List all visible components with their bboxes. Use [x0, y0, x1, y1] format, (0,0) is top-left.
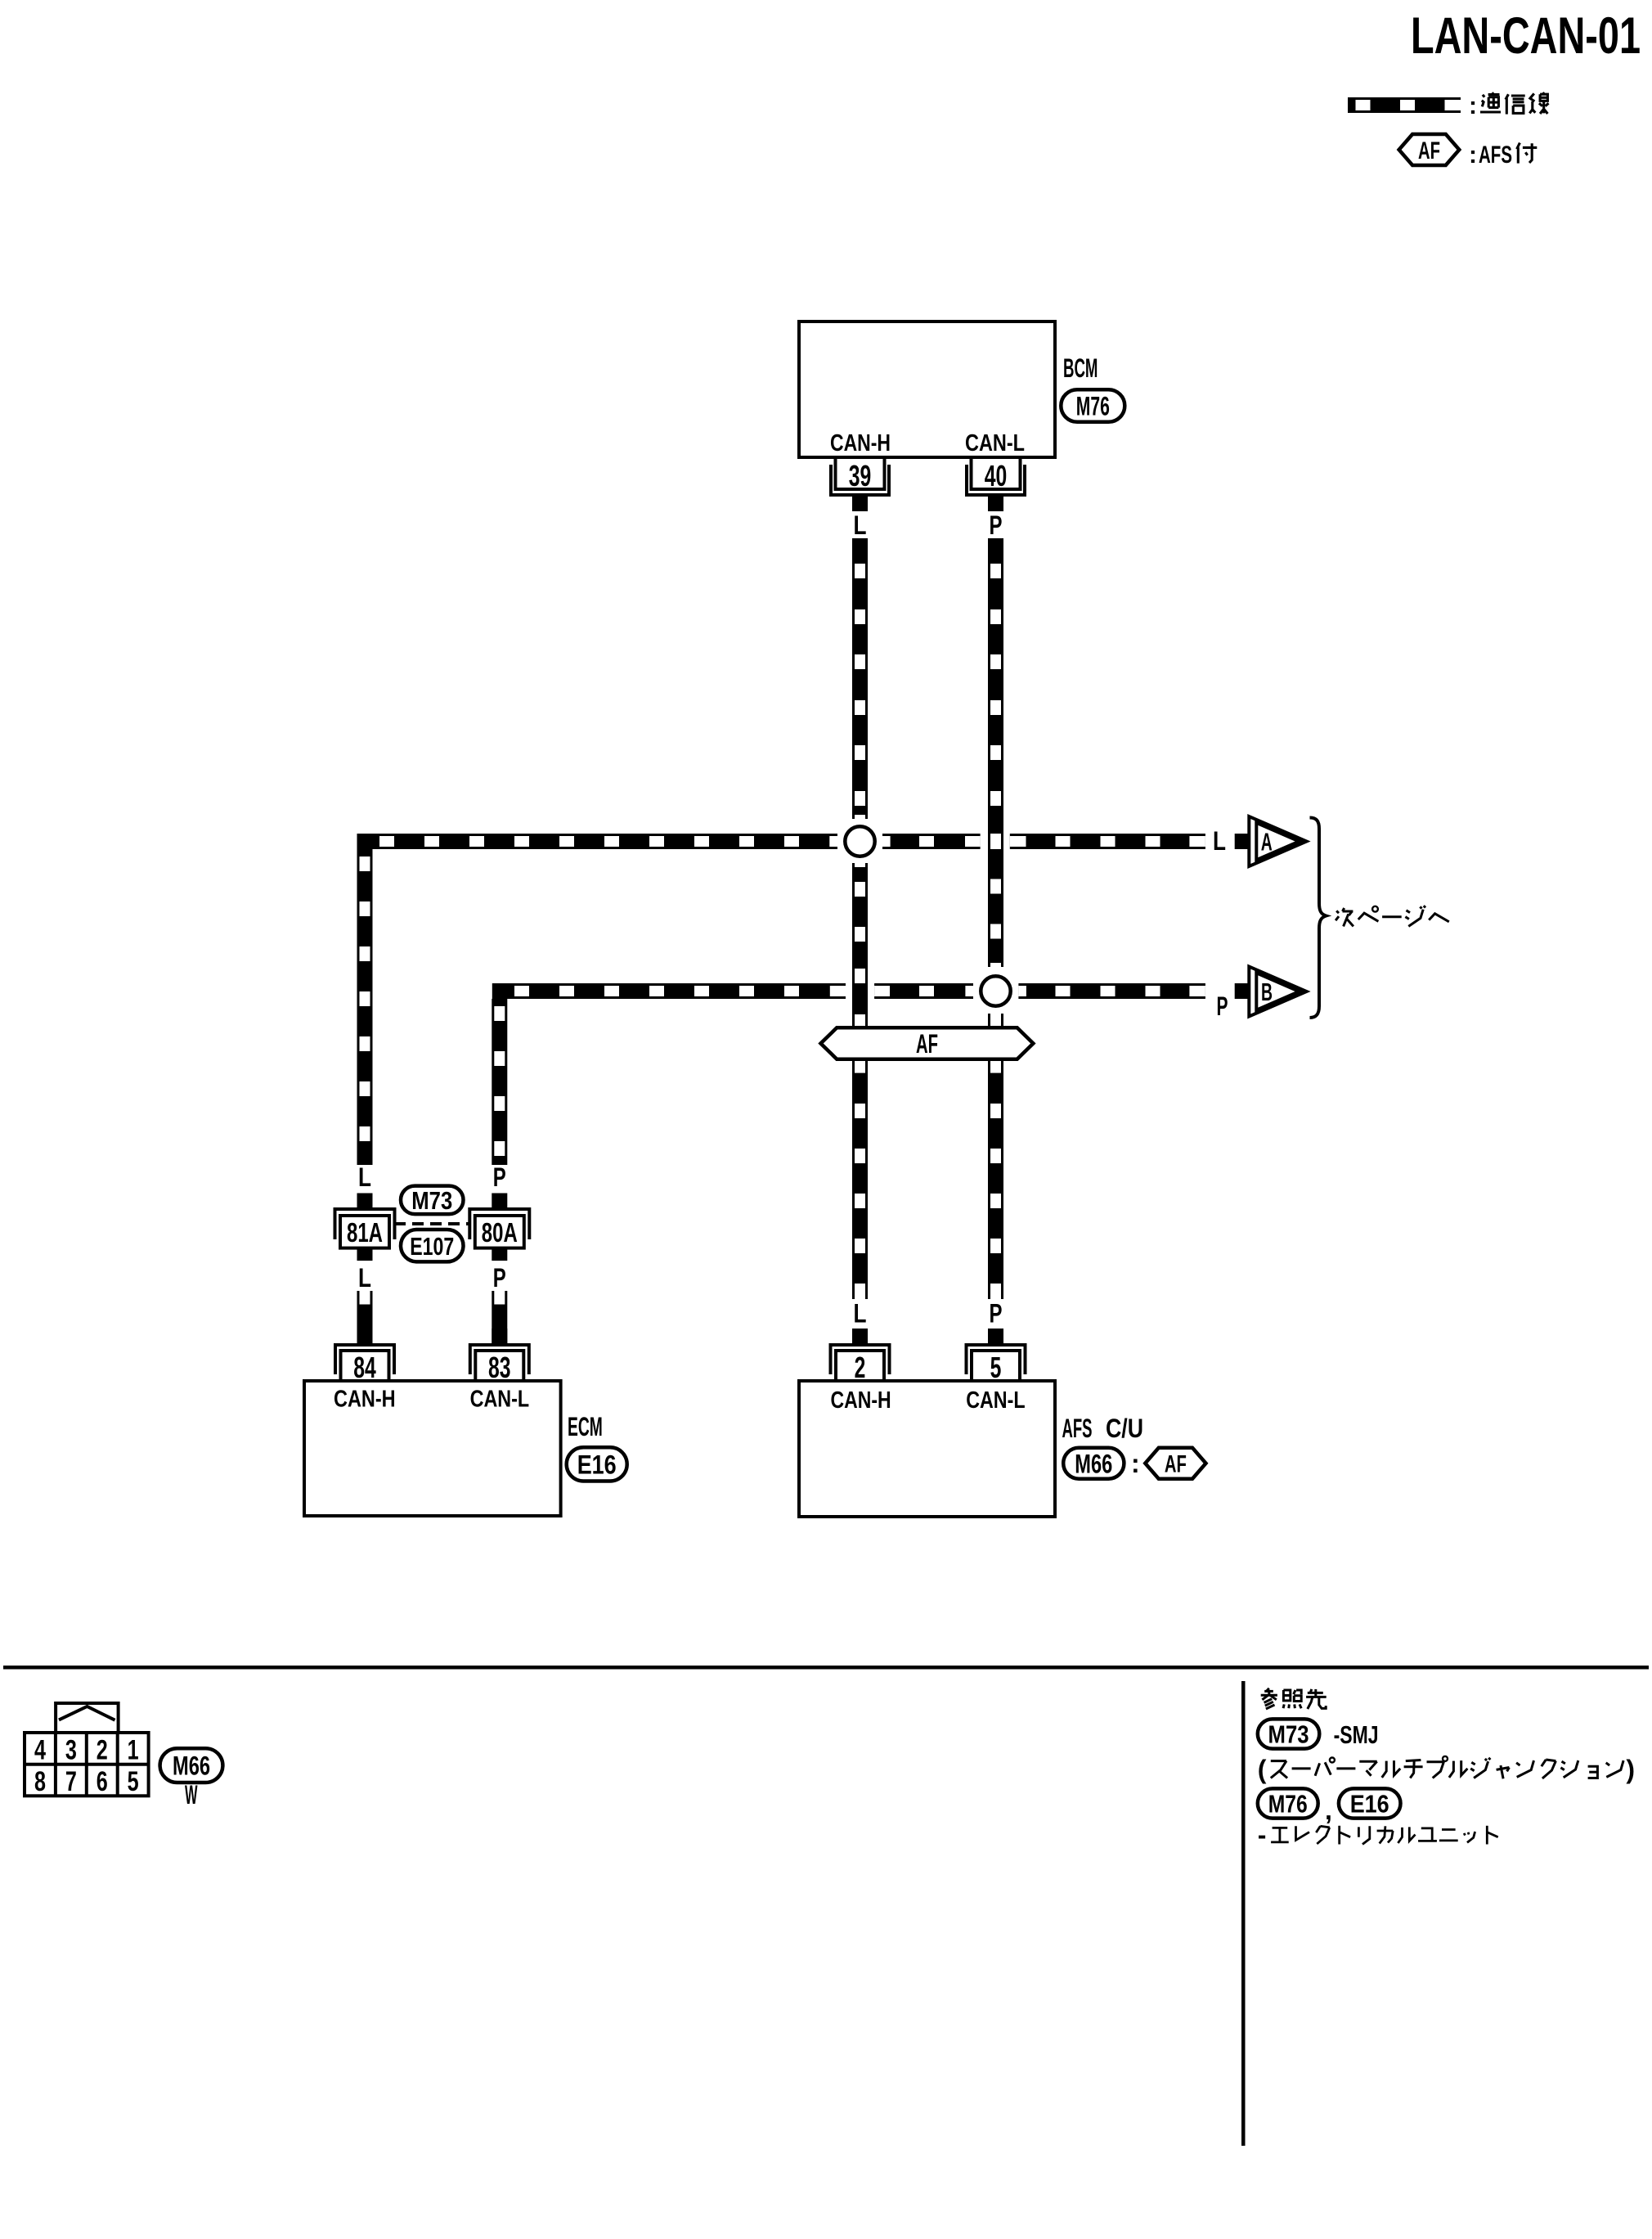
ECM box: [304, 1381, 561, 1516]
connector M66 (AFS): [1063, 1448, 1124, 1479]
svg-text:AF: AF: [916, 1029, 938, 1059]
arrow A stub: [1235, 834, 1250, 849]
wire line B (corner to crossing): [492, 983, 846, 999]
connector M73: [401, 1186, 464, 1215]
svg-text:M66: M66: [173, 1751, 210, 1781]
wire second branch (corner to 80A): [492, 999, 507, 1165]
brace next-page: [1310, 818, 1327, 1018]
M66 color W: [185, 1780, 198, 1810]
connector M76: [1061, 389, 1125, 422]
connector M76 (reference): [1258, 1788, 1318, 1818]
line A wire label L: [1213, 826, 1226, 856]
junction B: [981, 976, 1010, 1005]
connector M73 (reference): [1258, 1719, 1320, 1748]
wire line B (crossing to junction B): [874, 983, 973, 999]
wire label P (at AFS pin 5): [990, 1299, 1003, 1329]
arrow A: [1249, 816, 1306, 866]
svg-text:M73: M73: [411, 1186, 452, 1215]
svg-text:L: L: [358, 1162, 371, 1192]
wire left branch (corner to 81A): [357, 849, 373, 1165]
svg-text:39: 39: [849, 459, 872, 492]
next-page text: [1336, 906, 1449, 926]
line B wire label P: [1217, 991, 1228, 1021]
AFS C/U label: [1062, 1414, 1144, 1443]
SMJ dashed link: [394, 1222, 471, 1225]
AFS colon: [1131, 1449, 1140, 1478]
svg-text:5: 5: [128, 1766, 139, 1797]
reference SMJ name: [1258, 1755, 1635, 1784]
AF flag (AFS): [1145, 1448, 1205, 1479]
svg-text:8: 8: [34, 1766, 46, 1797]
footer vertical line: [1241, 1681, 1246, 2146]
footer divider line: [3, 1666, 1649, 1670]
title LAN-CAN-01: [1411, 7, 1641, 65]
svg-text:ECM: ECM: [568, 1412, 603, 1441]
connector E16: [567, 1447, 627, 1481]
svg-text:5: 5: [990, 1351, 1002, 1384]
svg-text:AF: AF: [1418, 137, 1440, 164]
svg-text:-SMJ: -SMJ: [1334, 1720, 1379, 1749]
svg-text:M76: M76: [1076, 392, 1110, 421]
ECM pin label CAN-H: [334, 1387, 396, 1413]
svg-text:81A: 81A: [347, 1217, 383, 1248]
connector E107: [401, 1230, 464, 1261]
pin 2: [831, 1329, 890, 1384]
svg-text::: :: [1469, 142, 1477, 169]
svg-text:A: A: [1261, 827, 1273, 856]
svg-text:40: 40: [985, 459, 1008, 492]
wire label L (CAN-H at BCM): [854, 510, 867, 540]
pin 39: [831, 457, 889, 511]
reference comma: [1325, 1796, 1332, 1825]
BCM box: [799, 321, 1055, 457]
pin 5: [967, 1329, 1026, 1384]
legend communication-line text: [1469, 92, 1549, 119]
svg-text::: :: [1131, 1449, 1140, 1478]
reference electrical-unit text: [1258, 1820, 1498, 1850]
svg-text:1: 1: [128, 1734, 139, 1765]
svg-text:AFS: AFS: [1479, 142, 1512, 169]
inline connector 81A: [335, 1194, 395, 1261]
connector M66 (face view): [160, 1748, 223, 1783]
svg-text::: :: [1469, 92, 1477, 119]
svg-text:(: (: [1258, 1755, 1267, 1784]
svg-text:B: B: [1261, 978, 1273, 1006]
wire CAN-L (junction B to AFS C/U): [988, 1014, 1003, 1299]
svg-text:P: P: [493, 1162, 506, 1192]
svg-text:BCM: BCM: [1063, 353, 1098, 383]
svg-text:6: 6: [97, 1766, 108, 1797]
ECM label: [568, 1412, 603, 1441]
svg-text:CAN-L: CAN-L: [965, 430, 1025, 456]
connector E16 (reference): [1339, 1788, 1401, 1818]
svg-text:P: P: [990, 510, 1003, 540]
svg-text:L: L: [854, 1299, 867, 1329]
svg-text:AF: AF: [1165, 1451, 1187, 1478]
arrow B: [1249, 967, 1306, 1017]
wire label L (at AFS pin 2): [854, 1299, 867, 1329]
svg-text:M73: M73: [1268, 1720, 1309, 1749]
legend AF flag: [1399, 134, 1460, 165]
AF flag banner: [821, 1027, 1034, 1059]
svg-text:CAN-H: CAN-H: [830, 430, 891, 456]
BCM label: [1063, 353, 1098, 383]
svg-text:LAN-CAN-01: LAN-CAN-01: [1411, 7, 1641, 65]
svg-text:84: 84: [353, 1351, 376, 1384]
legend AF text: [1469, 142, 1537, 169]
wire label P (above 80A): [493, 1162, 506, 1192]
wire CAN-H (BCM to junction A): [852, 538, 868, 819]
svg-text:83: 83: [488, 1351, 511, 1384]
svg-text:E16: E16: [1350, 1790, 1389, 1819]
svg-text:E16: E16: [577, 1450, 617, 1479]
pin 84: [335, 1329, 394, 1384]
wire CAN-H (junction A to AFS C/U): [852, 863, 868, 1299]
svg-text:L: L: [1213, 826, 1226, 856]
svg-text:P: P: [493, 1263, 506, 1293]
wire CAN-L (BCM to junction B): [988, 538, 1003, 967]
svg-text:CAN-H: CAN-H: [334, 1387, 396, 1413]
svg-text:L: L: [358, 1263, 371, 1293]
pin 40: [967, 457, 1025, 511]
wire second branch (80A to ECM): [492, 1291, 507, 1343]
wire label L (below 81A): [358, 1263, 371, 1293]
svg-text:C/U: C/U: [1106, 1414, 1143, 1443]
svg-text:CAN-L: CAN-L: [966, 1387, 1025, 1414]
svg-text:): ): [1626, 1755, 1635, 1784]
AFS pin label CAN-H: [831, 1387, 891, 1414]
arrow B stub: [1235, 983, 1250, 999]
wire line B (junction B to arrow B): [1018, 983, 1205, 999]
svg-text:80A: 80A: [482, 1217, 518, 1248]
wire line A (corner to junction A): [357, 834, 838, 849]
svg-text:-: -: [1258, 1820, 1267, 1850]
svg-text:4: 4: [34, 1734, 46, 1765]
wire line A (crossing to arrow A): [1010, 834, 1205, 849]
svg-text:P: P: [990, 1299, 1003, 1329]
svg-text:,: ,: [1325, 1796, 1332, 1825]
wire label P (CAN-L at BCM): [990, 510, 1003, 540]
svg-text:2: 2: [855, 1351, 866, 1384]
svg-text:CAN-L: CAN-L: [470, 1387, 530, 1413]
wire line A (junction A to crossing): [882, 834, 981, 849]
svg-text:M66: M66: [1075, 1449, 1112, 1478]
svg-text:E107: E107: [410, 1232, 454, 1261]
ECM pin label CAN-L: [470, 1387, 530, 1413]
wire label L (above 81A): [358, 1162, 371, 1192]
svg-text:M76: M76: [1268, 1790, 1308, 1819]
BCM pin label CAN-H: [830, 430, 891, 456]
wire left branch (81A to ECM): [357, 1291, 373, 1343]
pin 83: [470, 1329, 529, 1384]
AFS C/U box: [799, 1381, 1055, 1517]
svg-text:L: L: [854, 510, 867, 540]
svg-text:P: P: [1217, 991, 1228, 1021]
svg-text:AFS: AFS: [1062, 1414, 1093, 1443]
reference heading: [1261, 1688, 1327, 1709]
svg-text:3: 3: [65, 1734, 77, 1765]
svg-text:2: 2: [97, 1734, 108, 1765]
svg-text:W: W: [185, 1780, 198, 1810]
legend communication-line bar: [1348, 97, 1461, 113]
inline connector 80A: [469, 1194, 529, 1261]
svg-text:CAN-H: CAN-H: [831, 1387, 891, 1414]
BCM pin label CAN-L: [965, 430, 1025, 456]
junction A: [845, 826, 874, 856]
svg-text:7: 7: [65, 1766, 77, 1797]
M66 connector face view: [25, 1703, 149, 1797]
wire label P (below 80A): [493, 1263, 506, 1293]
reference SMJ text: [1334, 1720, 1379, 1749]
AFS pin label CAN-L: [966, 1387, 1025, 1414]
